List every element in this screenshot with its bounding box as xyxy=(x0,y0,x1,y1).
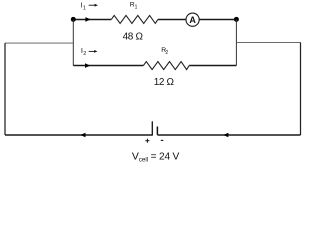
svg-text:= 24 V: = 24 V xyxy=(151,152,180,163)
current arrow on branch 2 xyxy=(85,63,90,68)
arrow glyph after I2 xyxy=(89,50,98,53)
battery V_cell short plate xyxy=(156,127,158,135)
node right junction xyxy=(234,17,239,22)
svg-text:2: 2 xyxy=(165,50,168,56)
svg-text:48 Ω: 48 Ω xyxy=(123,31,144,42)
wire bottom right segment xyxy=(157,134,300,136)
label R1 xyxy=(130,2,138,11)
battery V_cell long plate xyxy=(151,121,153,135)
svg-text:1: 1 xyxy=(83,5,86,11)
wire right inner vertical xyxy=(235,19,237,65)
current arrow on branch 1 xyxy=(85,17,90,22)
label I2 xyxy=(81,46,86,57)
wire left tap horizontal xyxy=(5,42,73,44)
arrow glyph after I1 xyxy=(89,4,98,7)
battery plus sign xyxy=(145,139,149,143)
wire branch 2 right segment xyxy=(189,65,236,67)
current arrow bottom left xyxy=(80,133,85,138)
node left junction xyxy=(71,17,76,22)
resistor R1 xyxy=(111,15,158,23)
wire bottom left segment xyxy=(5,134,152,136)
wire left inner vertical xyxy=(72,19,74,65)
battery minus sign xyxy=(161,139,164,141)
wire left edge vertical xyxy=(4,43,6,135)
wire top branch right segment xyxy=(158,19,237,21)
label R2 xyxy=(161,47,168,56)
svg-text:12 Ω: 12 Ω xyxy=(154,77,175,88)
ammeter U1 xyxy=(186,13,199,26)
svg-text:1: 1 xyxy=(135,5,138,11)
current arrow bottom right xyxy=(223,133,228,138)
svg-text:A: A xyxy=(189,15,196,25)
wire branch 2 left segment xyxy=(73,65,143,67)
label I1 xyxy=(81,0,86,11)
wire top branch left segment xyxy=(73,19,111,21)
label V_cell = 24 V xyxy=(132,151,180,164)
svg-text:2: 2 xyxy=(83,51,86,57)
wire right tap horizontal xyxy=(236,41,300,43)
wire right edge vertical xyxy=(300,42,302,135)
resistor R2 xyxy=(143,62,189,70)
svg-text:cell: cell xyxy=(139,157,148,164)
